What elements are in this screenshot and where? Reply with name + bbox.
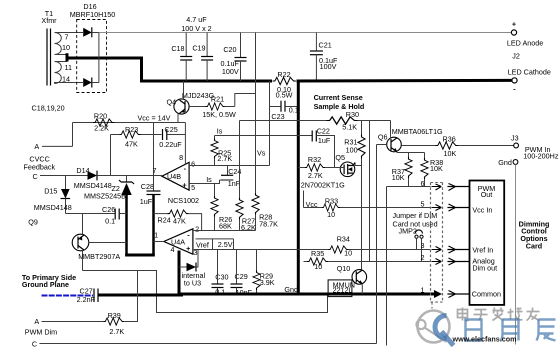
long vertical nets [369,121,371,262]
U4A pin2 line [193,230,256,232]
svg-text:C28: C28 [141,182,154,191]
svg-text:11: 11 [65,63,72,72]
svg-text:10: 10 [62,43,70,52]
capacitor C19 [192,33,213,82]
svg-text:MMSZ5245B: MMSZ5245B [84,191,126,200]
resistor R28 [252,193,278,231]
svg-text:Vcc In: Vcc In [472,205,492,214]
wire pin7 to D16 top diode [55,32,84,34]
svg-text:100V: 100V [222,67,239,76]
svg-text:10: 10 [344,249,352,258]
capacitor C23 [270,101,299,121]
svg-text:C19: C19 [192,43,205,52]
svg-text:2.2K: 2.2K [94,124,109,133]
svg-text:8: 8 [179,153,183,162]
svg-text:2.7K: 2.7K [217,154,232,163]
svg-text:5.1K: 5.1K [342,122,357,131]
svg-text:Out: Out [481,190,493,199]
svg-text:C: C [33,172,38,181]
svg-text:100-200Hz: 100-200Hz [523,152,559,161]
resistor R25 [211,136,232,166]
svg-text:C22: C22 [317,126,330,135]
resistor R29 [253,250,275,295]
zener Z2 [84,176,134,201]
svg-text:MMSD4148: MMSD4148 [34,203,72,212]
node A (upper) [34,142,72,151]
capacitor C24 [220,166,242,189]
svg-text:6: 6 [191,160,195,169]
svg-text:Q5: Q5 [335,153,345,162]
svg-text:7: 7 [153,166,157,175]
diode D15 [34,176,72,214]
resistor R39 [103,271,137,337]
svg-text:A: A [34,142,39,151]
svg-text:Vref: Vref [196,241,209,250]
svg-text:NCS1002: NCS1002 [168,196,199,205]
svg-text:2212L: 2212L [333,286,353,295]
svg-text:C: C [32,340,37,349]
wire R31 to Q5 drain and down to Q10 [355,159,361,166]
svg-text:68K: 68K [219,222,232,231]
svg-text:R21: R21 [211,95,224,104]
svg-text:5: 5 [421,200,425,209]
resistor R27 [236,121,256,233]
svg-text:6: 6 [421,179,425,188]
thick net C28 bottom down [152,195,155,257]
svg-text:+: + [512,20,516,29]
svg-text:0.22uF: 0.22uF [159,140,182,149]
svg-text:C18,19,20: C18,19,20 [32,104,65,113]
node Vs vertical from top rail [255,33,257,193]
svg-text:47K: 47K [173,217,186,226]
wire R30 feed line [240,120,327,122]
svg-text:3.9K: 3.9K [260,278,275,287]
resistor R32 [298,155,345,189]
connector (dashed) [431,183,443,309]
svg-text:10K: 10K [430,164,443,173]
resistor R36 [436,134,514,158]
resistor R26 [211,184,232,231]
svg-text:LED Anode: LED Anode [507,39,543,48]
svg-text:Feedback: Feedback [24,163,56,172]
dimming card box [470,181,505,305]
resistor R35 [304,249,431,271]
svg-text:2N7002KT1G: 2N7002KT1G [301,180,345,189]
resistor R21 [189,94,255,119]
wire U4B pin5 line [189,180,219,184]
svg-text:7: 7 [65,33,69,42]
svg-text:5: 5 [191,183,195,192]
blue net to primary gnd [42,295,94,297]
svg-text:R34: R34 [337,234,350,243]
svg-text:D15: D15 [44,187,57,196]
svg-text:R20: R20 [94,112,107,121]
resistor R20 [93,112,114,133]
Gnd bus thick [98,294,438,295]
capacitor C20 [221,33,247,82]
svg-text:100 V x 2: 100 V x 2 [181,24,211,33]
svg-text:10K: 10K [444,149,457,158]
svg-text:R36: R36 [443,134,456,143]
svg-text:10: 10 [314,262,322,271]
U4A pin4 thick ground [178,251,181,295]
transistor Q9 (PNP) [28,214,126,271]
svg-text:C20: C20 [223,45,236,54]
svg-text:1nF: 1nF [228,179,241,188]
svg-text:Card: Card [526,242,542,251]
current sense tap vertical [269,81,271,166]
svg-text:PWM Dim: PWM Dim [25,328,57,337]
terminal Gnd (right) [498,158,518,345]
svg-text:3: 3 [421,241,425,250]
svg-text:R24: R24 [158,216,171,225]
svg-text:MJD243G: MJD243G [182,91,215,100]
transistor Q4 [167,81,215,123]
capacitor C27 [77,287,98,305]
svg-text:1uF: 1uF [318,136,331,145]
svg-text:Q9: Q9 [28,218,38,227]
svg-text:2: 2 [195,225,199,234]
svg-text:1: 1 [154,231,158,240]
svg-text:Gnd: Gnd [498,158,512,167]
svg-text:4.7 uF: 4.7 uF [186,15,207,24]
diode D14 [74,166,162,190]
svg-text:to U3: to U3 [184,279,201,288]
Vref line (pin3 to card) [193,249,328,251]
svg-text:2.2nF: 2.2nF [77,295,96,304]
wire pin14 to D16 bottom diode [55,83,84,84]
svg-text:+: + [186,244,190,253]
op-amp U4A [154,225,200,258]
svg-text:47K: 47K [125,140,138,149]
card input arrows [447,184,469,298]
thick net Z2 anode down [125,195,128,256]
transformer T1 [41,9,72,86]
LED Cathode terminal [508,68,551,94]
thick mid bus vertical [297,80,300,295]
svg-text:Common: Common [472,290,501,299]
thick rail right of R22 to LED cathode [297,79,512,83]
resistor R24 [154,210,202,231]
svg-text:4: 4 [171,245,175,254]
diode D16 (dual, dashed package) [70,2,116,93]
svg-text:2.7K: 2.7K [109,327,124,336]
svg-text:2: 2 [421,253,425,262]
capacitor C26 [66,205,127,225]
connector pin 1 [421,286,443,299]
capacitor C22 [312,126,334,167]
transistor Q10 [328,264,367,297]
svg-text:15K, 0.5W: 15K, 0.5W [202,110,236,119]
transistor Q6 [377,121,444,153]
capacitor C28 [140,123,161,207]
svg-text:J3: J3 [511,133,519,142]
svg-text:JMP2: JMP2 [399,227,417,236]
resistor R34 [328,234,352,257]
svg-text:C21: C21 [319,41,332,50]
capacitor C18 [171,33,192,82]
capacitor C25 [159,125,185,149]
wire Vref annotation box [196,239,234,250]
svg-text:Q4: Q4 [167,98,177,107]
svg-text:LED Cathode: LED Cathode [508,68,551,77]
svg-text:R35: R35 [311,249,324,258]
svg-text:1uF: 1uF [140,197,153,206]
svg-text:Xfmr: Xfmr [41,16,57,25]
svg-text:www.elecfans.com: www.elecfans.com [452,335,517,344]
svg-text:1: 1 [421,286,425,295]
Is rail wire [215,135,313,137]
svg-text:0.1: 0.1 [105,216,115,225]
svg-text:Ground Plane: Ground Plane [22,280,69,289]
svg-text:100V: 100V [320,62,337,71]
svg-text:100: 100 [346,145,358,154]
Vcc=14V rail [73,113,186,146]
resistor R33 [322,196,431,219]
svg-text:Q10: Q10 [337,264,351,273]
resistor R22 [273,70,296,100]
transistor Q5 (MOSFET) [335,153,356,177]
wire U4B pin6 line [189,165,269,167]
wire Q9 collector to lower net [83,271,328,313]
svg-text:0.5W: 0.5W [276,91,293,100]
svg-text:+: + [182,181,186,190]
resistor R23 [111,125,162,176]
connector pin 3 [421,241,442,253]
thick bar joining [125,254,155,257]
svg-text:2.5V: 2.5V [218,240,233,249]
svg-text:J2: J2 [512,52,520,61]
svg-text:A: A [34,317,39,326]
op-amp U4B [153,123,200,206]
svg-text:Is: Is [206,175,212,184]
node C (upper) [33,172,88,181]
node A (bottom) [34,317,103,326]
svg-text:MBRF10H150: MBRF10H150 [70,10,116,19]
svg-text:MMSD4148: MMSD4148 [74,181,112,190]
resistor R38 [421,153,443,187]
svg-text:Vs: Vs [257,149,266,158]
resistor R37 [387,153,413,187]
top rail to LED Anode [99,32,512,34]
node C (bottom) [32,296,377,349]
svg-text:R30: R30 [346,110,359,119]
terminal J3 [511,133,559,160]
svg-text:R32: R32 [308,155,321,164]
svg-text:U4B: U4B [167,172,181,181]
svg-text:Q6: Q6 [378,133,388,142]
svg-text:78.7K: 78.7K [259,220,278,229]
internal diode to U3 [179,250,205,288]
wire row6 to connector [387,186,431,188]
watermark [416,308,555,346]
svg-text:C23: C23 [271,112,284,121]
svg-text:10: 10 [327,210,335,219]
svg-text:10K: 10K [392,173,405,182]
svg-text:C26: C26 [102,205,115,214]
Dimming Control Options Card label [519,219,550,250]
capacitor C21 [310,33,338,82]
svg-text:Vcc = 14V: Vcc = 14V [138,113,171,122]
Vcc row (R33) [304,191,322,210]
connector pin 5 [421,200,442,211]
svg-text:C18: C18 [171,44,184,53]
capacitor C30 [212,250,229,297]
LED Anode terminal J2 [507,20,543,61]
connector pin 6 [421,179,442,190]
svg-text:Dim out: Dim out [472,264,497,273]
resistor R31 [344,121,365,159]
svg-text:Vref In: Vref In [472,245,493,254]
svg-text:Is: Is [217,127,223,136]
wire center tap thick [55,55,68,62]
capacitor C29 [231,250,253,298]
resistor R30 [327,110,391,131]
svg-text:2.7K: 2.7K [308,171,323,180]
svg-text:Current Sense: Current Sense [314,93,363,102]
Jumper note + JMP2 [393,211,438,261]
svg-text:MMBT2907A: MMBT2907A [78,252,120,261]
svg-text:MMBTA06LT1G: MMBTA06LT1G [392,127,443,136]
connector pin 2 [421,253,442,265]
